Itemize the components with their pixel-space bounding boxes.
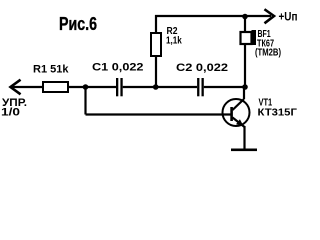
resistor R1 bbox=[43, 82, 68, 92]
wire: collector vertical bbox=[243, 87, 245, 99]
node: collector junction bbox=[242, 84, 248, 90]
wire: R1 to C1 bbox=[68, 86, 116, 88]
wire: emitter vertical bbox=[243, 126, 245, 149]
svg-text:+Uп: +Uп bbox=[279, 12, 298, 24]
svg-text:1/0: 1/0 bbox=[1, 107, 20, 119]
wire: +Un supply rail bbox=[155, 15, 271, 17]
control input arrow bbox=[11, 81, 20, 94]
wire: input to R1 bbox=[11, 86, 43, 88]
svg-text:C2 0,022: C2 0,022 bbox=[176, 62, 228, 74]
node: C1/R2/C2 junction bbox=[153, 84, 159, 90]
wire: base line bbox=[86, 113, 232, 115]
wire: C2 to collector node bbox=[204, 86, 245, 88]
wire: base branch vertical bbox=[84, 87, 86, 115]
svg-text:1,1k: 1,1k bbox=[166, 34, 182, 46]
wire: BF1 bottom lead bbox=[244, 44, 246, 87]
+Un arrow bbox=[266, 10, 275, 23]
wire: R2 top branch bbox=[155, 15, 157, 33]
capacitor C1 bbox=[116, 78, 123, 96]
earphone BF1 bbox=[241, 30, 257, 45]
svg-text:(ТМ2В): (ТМ2В) bbox=[255, 46, 281, 58]
svg-text:Рис.6: Рис.6 bbox=[59, 14, 97, 34]
wire: C1 to C2 bbox=[123, 86, 197, 88]
resistor R2 bbox=[151, 33, 161, 56]
capacitor C2 bbox=[197, 78, 204, 96]
ground bbox=[231, 149, 257, 152]
transistor VT1 bbox=[223, 99, 250, 127]
node: base branch junction bbox=[83, 84, 89, 90]
node: supply/BF1 junction bbox=[242, 14, 248, 20]
svg-text:КТ315Г: КТ315Г bbox=[258, 107, 297, 119]
wire: BF1 top lead bbox=[244, 19, 246, 32]
svg-text:C1 0,022: C1 0,022 bbox=[92, 61, 144, 73]
wire: R2 to junction bbox=[155, 56, 157, 87]
svg-text:R1 51k: R1 51k bbox=[33, 64, 69, 76]
